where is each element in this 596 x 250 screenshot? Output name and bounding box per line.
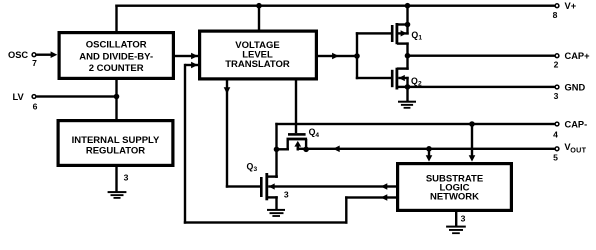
ground symbol below Q3 (267, 209, 285, 211)
node junction GND (405, 84, 411, 90)
svg-text:REGULATOR: REGULATOR (86, 146, 145, 157)
wire Q3 source lead to ground (267, 196, 278, 198)
internal supply regulator box U2 (58, 121, 173, 166)
pin 4 CAP- terminal (555, 122, 559, 126)
svg-text:CAP+: CAP+ (565, 51, 591, 61)
wire V+ rail to oscillator box top (115, 5, 117, 32)
svg-text:OSC: OSC (8, 50, 28, 60)
pin 5 VOUT terminal (555, 147, 559, 151)
wire substrate logic lower output to feedback (345, 196, 396, 198)
svg-text:TRANSLATOR: TRANSLATOR (225, 59, 290, 70)
node junction on V+ rail above voltage level translator (256, 3, 262, 9)
transistor Q4 NMOS (288, 133, 306, 136)
node junction CAP+ (405, 53, 411, 59)
wire gate bus to Q1 gate (356, 32, 393, 34)
transistor Q3 NMOS (260, 177, 263, 197)
svg-text:7: 7 (32, 58, 37, 68)
wire V+ top rail (115, 5, 554, 7)
wire Q4 source lead to CAP- node (287, 139, 289, 151)
node junction CAP- / Q4 source / Q3 drain (274, 147, 280, 153)
svg-text:OSCILLATOR: OSCILLATOR (86, 40, 147, 51)
ground symbol below substrate logic (446, 226, 466, 228)
wire gate bus to Q2 gate (356, 77, 393, 79)
svg-text:Q: Q (411, 76, 418, 86)
wire Q1 source and body to V+ rail (406, 5, 408, 35)
svg-text:NETWORK: NETWORK (430, 192, 479, 203)
wire CAP- branch down to Q4 and Q3 (275, 123, 277, 178)
svg-text:INTERNAL SUPPLY: INTERNAL SUPPLY (72, 135, 160, 146)
svg-text:6: 6 (33, 101, 38, 111)
node junction on V+ rail above Q1 (405, 3, 411, 9)
wire Q3 gate horizontal (226, 185, 261, 187)
wire translator to Q1 Q2 gate bus (316, 55, 358, 57)
svg-text:3: 3 (124, 172, 129, 182)
wire oscillator to translator (175, 55, 198, 57)
wire CAP- line (275, 123, 554, 125)
node junction LV / oscillator / regulator (114, 94, 120, 100)
svg-text:4: 4 (315, 132, 319, 139)
wire feedback riser from substrate logic to translator (184, 64, 186, 224)
wire regulator to ground (115, 167, 117, 192)
substrate logic network box U4 (398, 164, 512, 211)
pin 7 OSC input terminal (32, 53, 36, 57)
voltage level translator box U3 (200, 31, 317, 79)
wire translator bottom to Q3 gate vertical (226, 80, 228, 188)
wire Q2 source to ground (406, 87, 408, 102)
wire CAP- to substrate logic network (471, 123, 473, 156)
wire Q2 drain to CAP+ node (406, 56, 408, 70)
wire V+ rail to translator box top (258, 5, 260, 30)
svg-text:3: 3 (554, 91, 559, 101)
wire VOUT to substrate logic network (428, 148, 430, 156)
wire feedback bottom run (184, 221, 348, 223)
ground symbol below Q2 (398, 101, 416, 103)
svg-text:3: 3 (284, 189, 289, 199)
pin 2 CAP+ terminal (555, 54, 559, 58)
svg-text:5: 5 (553, 153, 558, 163)
svg-text:V+: V+ (565, 1, 577, 11)
node junction Q1 source body tie (405, 22, 411, 28)
wire VOUT line (297, 148, 555, 150)
svg-text:4: 4 (553, 129, 558, 139)
transistor Q2 NMOS (391, 70, 394, 87)
svg-text:OUT: OUT (570, 146, 586, 155)
wire CAP+ line (406, 55, 554, 57)
svg-text:GND: GND (565, 82, 586, 92)
node junction CAP- to substrate logic drop (469, 121, 475, 127)
node junction Q4 drain / VOUT (303, 147, 309, 153)
wire substrate logic to ground (455, 212, 457, 226)
svg-text:LV: LV (13, 92, 25, 102)
svg-text:3: 3 (461, 213, 466, 223)
svg-text:AND DIVIDE-BY-: AND DIVIDE-BY- (79, 51, 153, 62)
wire OSC to oscillator box (37, 54, 52, 56)
wire oscillator box bottom to internal supply regulator top (115, 80, 117, 119)
wire feedback riser right segment (345, 196, 347, 223)
pin 6 LV input terminal (32, 95, 36, 99)
oscillator and divide-by-2 counter box U1 (59, 33, 173, 79)
node junction gate bus (354, 53, 360, 59)
pin 8 V+ terminal (555, 4, 559, 8)
svg-text:3: 3 (254, 166, 258, 173)
svg-text:8: 8 (553, 10, 558, 20)
svg-text:CAP-: CAP- (565, 119, 588, 129)
node junction VOUT to substrate logic drop (426, 146, 432, 152)
pin 3 GND terminal (555, 85, 559, 89)
wire Q3 body to substrate logic network (268, 185, 396, 187)
wire Q3 drain lead to CAP- branch (267, 175, 278, 177)
wire gate bus vertical (356, 32, 358, 79)
svg-text:Q: Q (247, 162, 254, 172)
wire GND line (406, 86, 554, 88)
svg-text:2: 2 (554, 60, 559, 70)
wire Q4 drain lead to VOUT line (305, 139, 307, 151)
svg-text:2 COUNTER: 2 COUNTER (89, 63, 144, 74)
wire Q1 drain to CAP+ node (406, 42, 408, 57)
ground symbol below regulator (108, 191, 127, 193)
transistor Q1 PMOS (391, 25, 394, 42)
wire substrate logic upper output arrow (381, 183, 388, 189)
wire LV to regulator node (37, 95, 116, 97)
wire translator to Q4 gate (295, 80, 297, 134)
wire Q2 body tie to source (406, 77, 408, 88)
svg-text:Q: Q (411, 30, 418, 40)
svg-text:1: 1 (418, 35, 422, 42)
